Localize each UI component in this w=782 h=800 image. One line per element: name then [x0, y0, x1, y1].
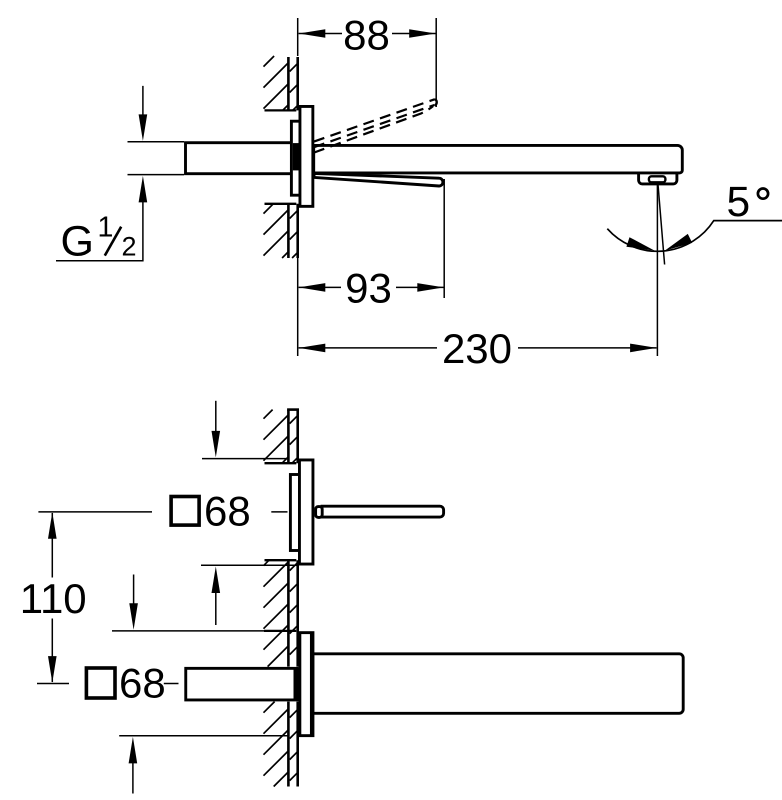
svg-text:5: 5 — [727, 179, 751, 226]
leader for upper 68 — [271, 511, 287, 513]
wall hatch lower block (side view) — [264, 204, 298, 258]
arrow to spout bottom edge — [132, 762, 134, 794]
escutcheon step behind wall (side view) — [291, 121, 300, 195]
5 degree arc with leader — [607, 221, 782, 252]
spout escutcheon plate (plan view) — [300, 633, 313, 736]
pipe diameter dimension line G1/2 — [56, 86, 144, 261]
handle hole closing edges — [265, 463, 297, 560]
arrow to spout top edge — [133, 575, 135, 605]
escutcheon plate (side view) — [300, 106, 313, 206]
wall hatch block 3 (plan view) — [264, 702, 298, 787]
wall hatch upper block (side view) — [264, 56, 298, 110]
svg-text:230: 230 — [442, 325, 512, 372]
extension line: handle bottom edge — [201, 564, 297, 566]
arrow to handle top edge — [215, 401, 217, 432]
dimension 93: extension line — [443, 179, 445, 298]
dimension 93: dimension line and arrows — [299, 286, 444, 288]
wall top cap (plan view) — [287, 408, 299, 411]
pipe end cap dark band — [293, 143, 299, 170]
square symbol for upper 68 — [171, 497, 199, 526]
outlet vertical reference line — [656, 185, 658, 356]
lever raised position (dashed, 3 edges) — [314, 99, 435, 152]
svg-text:110: 110 — [20, 575, 87, 622]
svg-text:68: 68 — [204, 488, 251, 535]
handle escutcheon step behind wall — [290, 475, 299, 551]
wall inner edge line (plan view) — [287, 410, 290, 787]
wall face line (side view) — [296, 57, 299, 258]
5 degree tilted stream line — [658, 182, 665, 265]
svg-text:2: 2 — [122, 232, 137, 262]
wall hatch block 1 (plan view) — [264, 410, 298, 464]
svg-text:68: 68 — [119, 660, 166, 707]
svg-text:88: 88 — [343, 11, 390, 58]
handle escutcheon plate (plan view) — [299, 460, 313, 564]
dimension 230: dimension line and arrows — [299, 347, 657, 349]
dimension 88: extension lines — [298, 18, 437, 107]
handle lever bar (plan view) — [322, 506, 444, 517]
spout body (plan view) — [313, 654, 683, 714]
svg-text:1: 1 — [98, 212, 114, 244]
extension line: handle centerline — [38, 511, 152, 513]
dimension 110: line and arrows — [51, 513, 53, 682]
left extension line below wall — [297, 258, 299, 356]
spout in-wall supply body — [186, 668, 297, 700]
handle pivot nub — [316, 507, 323, 518]
aerator outlet cup — [639, 173, 677, 184]
wall hatch block 2 (plan view) — [264, 560, 298, 666]
wall face line (plan view) — [296, 410, 299, 787]
supply pipe thin section — [128, 142, 185, 175]
supply pipe thick section — [186, 143, 298, 174]
lever lowest position (solid blade) — [314, 173, 443, 186]
extension line: spout centerline — [37, 683, 179, 685]
spout body (side view) — [314, 145, 683, 173]
arrow to handle bottom edge — [215, 593, 217, 626]
extension line: spout top edge — [112, 630, 264, 632]
wall hole closing edges (side view) — [265, 110, 297, 203]
dashed lever rounded tip cap — [435, 99, 437, 105]
dimension 88: dimension line and arrows — [299, 33, 436, 35]
wall inner edge line (side view) — [287, 57, 290, 258]
svg-text:G: G — [61, 218, 94, 266]
extension line: spout bottom edge — [119, 735, 288, 737]
aerator slot — [649, 176, 666, 182]
spout body end dark band — [294, 668, 300, 702]
svg-text:93: 93 — [345, 265, 392, 312]
square symbol for lower 68 — [86, 668, 115, 698]
extension line: handle top edge — [202, 458, 288, 460]
spout plate right edge overdraw — [310, 633, 313, 736]
